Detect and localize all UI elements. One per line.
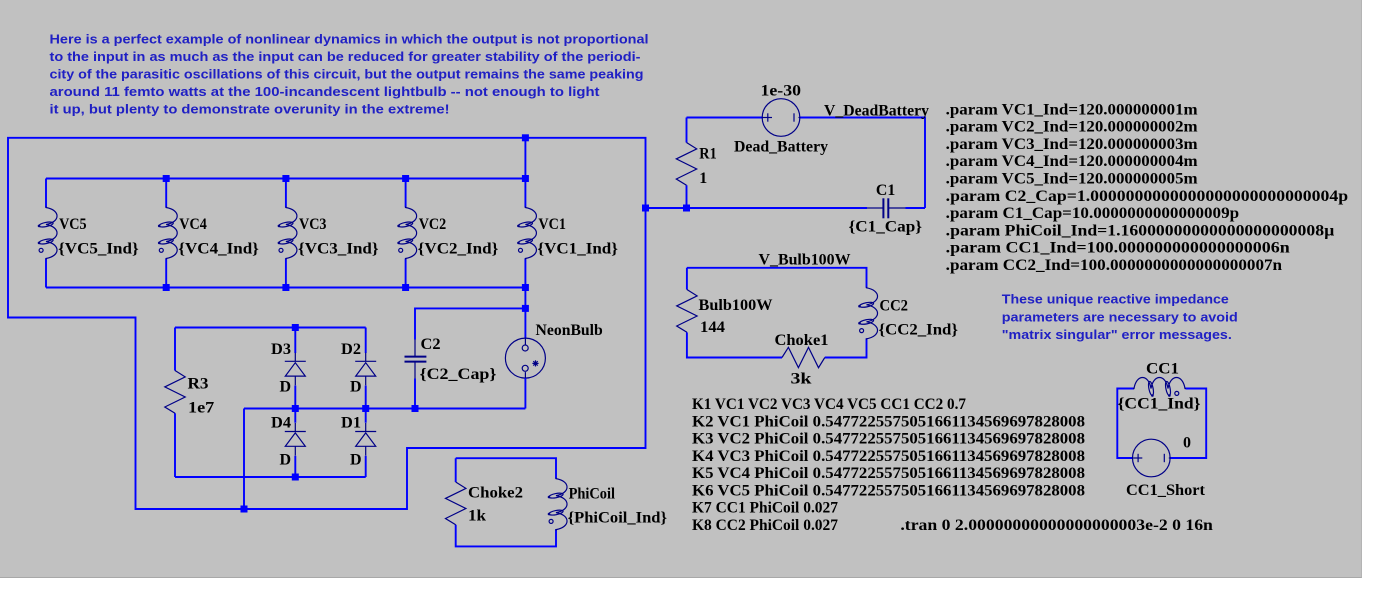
wire bridge bottom [175, 476, 366, 478]
svg-text:.param C1_Cap=10.0000000000000: .param C1_Cap=10.0000000000000009p [946, 205, 1239, 222]
svg-text:K8 CC2 PhiCoil 0.027: K8 CC2 PhiCoil 0.027 [692, 517, 838, 534]
wire C2 tee [415, 308, 525, 339]
inductor CC2 [858, 287, 877, 340]
svg-text:.param VC4_Ind=120.000000004m: .param VC4_Ind=120.000000004m [946, 153, 1199, 170]
inductor VC5 [38, 179, 57, 288]
svg-text:Bulb100W: Bulb100W [699, 297, 773, 314]
inductor VC2 [397, 179, 416, 288]
svg-text:VC1: VC1 [538, 216, 566, 233]
svg-text:{VC5_Ind}: {VC5_Ind} [58, 241, 139, 258]
diode D1 [355, 409, 376, 478]
svg-text:NeonBulb: NeonBulb [536, 322, 603, 339]
diode D4 [285, 409, 306, 478]
svg-text:.param VC3_Ind=120.000000003m: .param VC3_Ind=120.000000003m [946, 136, 1199, 153]
svg-text:Choke1: Choke1 [775, 332, 829, 349]
wire coil top bus [46, 178, 525, 180]
svg-text:parameters are necessary to av: parameters are necessary to avoid [1002, 309, 1238, 324]
svg-text:D4: D4 [271, 415, 291, 432]
svg-text:.param VC2_Ind=120.000000002m: .param VC2_Ind=120.000000002m [946, 119, 1199, 136]
spice directive params [946, 101, 1349, 274]
svg-text:K2 VC1 PhiCoil 0.5477225575051: K2 VC1 PhiCoil 0.54772255750516611345696… [692, 413, 1085, 430]
svg-text:"matrix singular" error messag: "matrix singular" error messages. [1002, 327, 1232, 342]
wire dead battery bottom [646, 207, 868, 209]
svg-text:{VC2_Ind}: {VC2_Ind} [418, 241, 499, 258]
svg-text:D: D [280, 379, 292, 396]
svg-text:K5 VC4 PhiCoil 0.5477225575051: K5 VC4 PhiCoil 0.54772255750516611345696… [692, 465, 1085, 482]
wire dead battery top right [800, 118, 925, 209]
svg-text:K7 CC1 PhiCoil 0.027: K7 CC1 PhiCoil 0.027 [692, 500, 838, 517]
neon bulb NeonBulb [505, 338, 545, 378]
svg-text:CC2: CC2 [880, 298, 909, 315]
wire coil bottom bus [46, 287, 525, 289]
svg-text:0: 0 [1183, 435, 1191, 452]
inductor VC3 [278, 179, 297, 288]
svg-text:{VC3_Ind}: {VC3_Ind} [298, 241, 379, 258]
svg-text:.param C2_Cap=1.00000000000000: .param C2_Cap=1.000000000000000000000000… [946, 188, 1349, 205]
svg-text:V_Bulb100W: V_Bulb100W [759, 252, 851, 269]
resistor R1 [676, 118, 696, 209]
svg-text:R1: R1 [699, 146, 716, 163]
wire neon bottom lead [524, 378, 526, 408]
wire CC1 loop left [1117, 389, 1134, 459]
diode D3 [285, 328, 306, 409]
svg-text:1: 1 [699, 170, 707, 187]
svg-text:{PhiCoil_Ind}: {PhiCoil_Ind} [568, 510, 667, 527]
svg-text:{C2_Cap}: {C2_Cap} [420, 366, 497, 383]
svg-text:CC1_Short: CC1_Short [1126, 482, 1206, 499]
svg-text:V_DeadBattery: V_DeadBattery [824, 103, 929, 120]
wire neon top branch [524, 288, 526, 339]
svg-text:PhiCoil: PhiCoil [569, 486, 616, 503]
inductor VC4 [158, 179, 177, 288]
svg-text:D2: D2 [341, 341, 361, 358]
voltage source CC1_Short [1132, 439, 1171, 477]
diode D2 [355, 328, 376, 409]
svg-text:1k: 1k [468, 508, 486, 525]
wire bridge top [175, 327, 366, 329]
svg-text:{VC1_Ind}: {VC1_Ind} [537, 241, 618, 258]
svg-text:3k: 3k [791, 371, 812, 388]
comment paragraph top [50, 32, 649, 117]
svg-text:{CC1_Ind}: {CC1_Ind} [1118, 396, 1201, 413]
svg-text:.param CC1_Ind=100.00000000000: .param CC1_Ind=100.000000000000000006n [946, 240, 1290, 257]
svg-text:to the input in as much as the: to the input in as much as the input can… [50, 49, 641, 64]
wire bulb loop bottom right [825, 338, 867, 357]
svg-text:.param VC5_Ind=120.000000005m: .param VC5_Ind=120.000000005m [946, 171, 1199, 188]
wire outer loop [8, 138, 646, 509]
svg-text:1e-30: 1e-30 [761, 83, 802, 100]
voltage source Dead_Battery [762, 99, 801, 137]
resistor Choke1 [782, 347, 825, 367]
wire top tap to coil bus [524, 138, 526, 179]
comment matrix singular note [1002, 292, 1238, 342]
wire bulb loop left and bottom [687, 268, 782, 358]
svg-text:R3: R3 [188, 376, 209, 393]
inductor PhiCoil [548, 478, 567, 531]
svg-text:D: D [280, 452, 292, 469]
wire dead battery top left [687, 117, 763, 119]
inductor VC1 [517, 179, 536, 288]
svg-text:.param CC2_Ind=100.00000000000: .param CC2_Ind=100.0000000000000000007n [946, 257, 1283, 274]
svg-text:.param PhiCoil_Ind=1.160000000: .param PhiCoil_Ind=1.1600000000000000000… [946, 222, 1335, 239]
svg-text:CC1: CC1 [1146, 361, 1179, 378]
node junctions [163, 134, 690, 512]
svg-text:K1 VC1 VC2 VC3 VC4 VC5 CC1 CC2: K1 VC1 VC2 VC3 VC4 VC5 CC1 CC2 0.7 [692, 396, 966, 413]
inductor CC1 [1133, 377, 1186, 396]
svg-text:city of the parasitic oscillat: city of the parasitic oscillations of th… [50, 67, 644, 82]
resistor Choke2 [446, 482, 466, 525]
wire C1 right lead to corner [906, 207, 926, 209]
svg-text:K4 VC3 PhiCoil 0.5477225575051: K4 VC3 PhiCoil 0.54772255750516611345696… [692, 448, 1085, 465]
svg-text:C2: C2 [421, 336, 441, 353]
wire middle bridge bus [244, 408, 525, 410]
svg-text:Dead_Battery: Dead_Battery [734, 139, 828, 156]
svg-text:D1: D1 [341, 415, 361, 432]
spice directive K statements [692, 396, 1085, 534]
svg-text:{VC4_Ind}: {VC4_Ind} [178, 241, 259, 258]
svg-text:Here is a perfect example of n: Here is a perfect example of nonlinear d… [50, 32, 649, 47]
wire CC1 loop right [1170, 389, 1206, 459]
svg-text:D: D [350, 452, 362, 469]
svg-text:D3: D3 [271, 341, 291, 358]
svg-text:Choke2: Choke2 [468, 485, 523, 502]
svg-text:it up, but plenty to demonstra: it up, but plenty to demonstrate overuni… [50, 102, 450, 117]
svg-text:.tran 0 2.00000000000000000003: .tran 0 2.00000000000000000003e-2 0 16n [900, 517, 1213, 534]
wire bulb loop top [687, 268, 867, 288]
svg-text:VC2: VC2 [419, 216, 447, 233]
svg-text:K6 VC5 PhiCoil 0.5477225575051: K6 VC5 PhiCoil 0.54772255750516611345696… [692, 482, 1085, 499]
svg-text:D: D [350, 379, 362, 396]
svg-text:144: 144 [700, 319, 725, 336]
svg-text:These unique reactive impedanc: These unique reactive impedance [1002, 292, 1229, 307]
svg-text:VC3: VC3 [299, 216, 327, 233]
svg-text:C1: C1 [876, 182, 895, 199]
resistor R3 [165, 328, 185, 478]
wire choke2 loop [456, 458, 556, 546]
svg-text:K3 VC2 PhiCoil 0.5477225575051: K3 VC2 PhiCoil 0.54772255750516611345696… [692, 431, 1085, 448]
svg-text:around 11 femto watts at the 1: around 11 femto watts at the 100-incande… [50, 84, 601, 99]
capacitor C1 [867, 198, 906, 218]
svg-text:VC5: VC5 [59, 216, 87, 233]
svg-text:.param VC1_Ind=120.000000001m: .param VC1_Ind=120.000000001m [946, 101, 1199, 118]
svg-text:1e7: 1e7 [188, 400, 214, 417]
svg-text:{CC2_Ind}: {CC2_Ind} [879, 322, 959, 339]
svg-text:{C1_Cap}: {C1_Cap} [849, 219, 923, 236]
wire C2 bottom lead [414, 379, 416, 409]
wire bridge drop [243, 409, 245, 510]
resistor Bulb100W [677, 290, 697, 333]
capacitor C2 [405, 340, 427, 379]
svg-text:VC4: VC4 [179, 216, 207, 233]
